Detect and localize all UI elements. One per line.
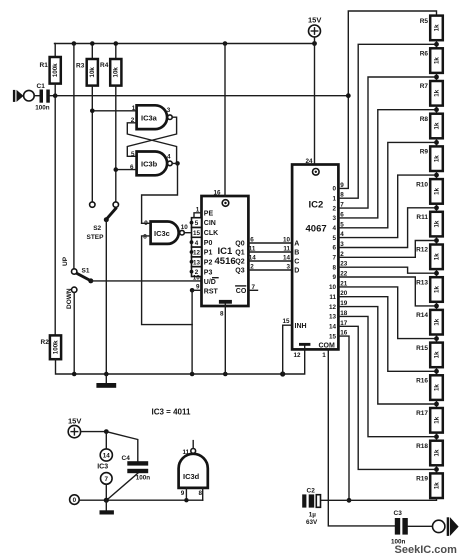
wire R16-R17 link (436, 400, 438, 408)
svg-text:1µ: 1µ (309, 512, 317, 519)
svg-text:22: 22 (340, 271, 348, 278)
wire IC2 ch6 pin3 to tap (338, 208, 436, 248)
svg-text:B: B (294, 250, 299, 257)
wire IC1 pin16 to rail (224, 44, 226, 197)
svg-text:11: 11 (283, 246, 290, 253)
wire R12-R13 link (436, 269, 438, 277)
svg-text:D: D (294, 268, 299, 275)
resistor R5 (420, 16, 443, 41)
IC1 RST pin: node and wire to ground (190, 284, 202, 374)
nand gate IC3c (143, 220, 188, 244)
ground symbol bottom left (100, 500, 114, 514)
input terminal arrow (13, 90, 24, 102)
svg-text:18: 18 (340, 310, 348, 317)
svg-text:2: 2 (250, 264, 254, 271)
svg-text:1k: 1k (433, 122, 440, 129)
wire IC3c out to IC1 CLK (185, 232, 192, 234)
wire IC3a pin2 cross-couple from IC3b out (127, 123, 176, 164)
input terminal circle (24, 90, 35, 101)
svg-text:R14: R14 (416, 312, 428, 319)
svg-text:CO: CO (236, 288, 247, 295)
switch S2 STEP (87, 202, 119, 241)
svg-text:Q2: Q2 (235, 259, 244, 266)
svg-text:P1: P1 (204, 250, 213, 257)
svg-text:1k: 1k (433, 351, 440, 358)
node IC3d pin9 (184, 498, 188, 502)
IC1 pin8 ground glyph and wire (219, 300, 232, 374)
svg-text:A: A (294, 241, 299, 248)
multiplexer IC2 4067 (292, 165, 338, 350)
nand gate IC3b (130, 151, 172, 175)
svg-text:6: 6 (250, 237, 254, 244)
wire IC3c pin9 stub (142, 222, 151, 224)
svg-text:R7: R7 (420, 83, 429, 90)
resistor R10 (416, 179, 443, 204)
svg-text:P0: P0 (204, 240, 213, 247)
svg-text:13: 13 (329, 314, 337, 321)
node tap 2 (434, 107, 439, 112)
svg-text:14: 14 (283, 255, 291, 262)
capacitor C2 electrolytic (302, 488, 320, 526)
ladder top wire input to R5 (338, 11, 436, 188)
svg-text:9: 9 (181, 490, 185, 497)
wire IC2 ch12 pin19 to tap (338, 307, 436, 404)
svg-text:P2: P2 (204, 260, 213, 267)
resistor R11 (416, 212, 442, 237)
node tap 1 (434, 75, 439, 80)
node rail/R4 (114, 41, 119, 46)
svg-text:CLK: CLK (204, 230, 218, 237)
svg-text:R10: R10 (416, 181, 428, 188)
svg-text:21: 21 (340, 280, 348, 287)
wire Q0 to A (248, 237, 292, 244)
0V terminal (70, 495, 80, 505)
svg-text:7: 7 (340, 202, 344, 209)
wire R14-R15 link (436, 335, 438, 343)
svg-text:C3: C3 (394, 510, 403, 517)
svg-text:R19: R19 (416, 476, 428, 483)
wire R13-R14 link (436, 302, 438, 310)
svg-text:1k: 1k (433, 155, 440, 162)
svg-text:IC3: IC3 (97, 464, 108, 471)
svg-text:COM: COM (319, 342, 336, 349)
wire R1 node down to R2 (54, 96, 56, 336)
svg-text:9: 9 (340, 182, 344, 189)
node R3/IC3a pin1 (90, 109, 95, 114)
wire R17-R18 link (436, 433, 438, 441)
wire C4 bottom to ground node (106, 473, 138, 500)
svg-text:1: 1 (332, 195, 336, 202)
wire Q1 to B (248, 246, 292, 253)
node rail/UP (72, 41, 77, 46)
wire ground rail (56, 349, 305, 374)
15V supply terminal top (308, 16, 321, 37)
resistor R15 (416, 343, 443, 368)
wire R18-R19 link (436, 465, 438, 473)
svg-text:3: 3 (286, 264, 290, 271)
svg-text:IC3b: IC3b (141, 160, 158, 169)
15V supply terminal bottom (68, 416, 81, 438)
IC2 INH pin to ground (283, 318, 307, 374)
svg-text:STEP: STEP (87, 234, 105, 241)
ground symbol main rail (96, 374, 116, 388)
svg-text:16: 16 (340, 330, 348, 337)
svg-text:C4: C4 (122, 455, 131, 462)
wire R9-R10 link (436, 171, 438, 179)
resistor R8 (420, 114, 443, 139)
svg-text:C1: C1 (37, 83, 46, 90)
node ladder bottom / C2 (347, 498, 352, 503)
svg-text:0: 0 (73, 497, 77, 504)
node tap 13 (434, 467, 439, 472)
svg-text:INH: INH (295, 323, 307, 330)
wire R5-R6 link (436, 40, 438, 48)
nand gate IC3a (131, 105, 172, 129)
svg-text:10: 10 (193, 275, 201, 282)
svg-text:R6: R6 (420, 51, 429, 58)
wire Q3 to D (248, 264, 292, 271)
resistor R3 (76, 44, 98, 203)
wire IC2 ch14 pin17 to tap (338, 326, 436, 469)
svg-text:9: 9 (332, 274, 336, 281)
resistor R9 (420, 146, 443, 171)
IC1 pin16 supply symbol (214, 190, 229, 207)
svg-text:14: 14 (103, 452, 111, 459)
svg-text:DOWN: DOWN (66, 288, 73, 309)
IC1 CO pin 7 stub (236, 284, 258, 295)
wire IC2 ch8 pin23 to tap (338, 267, 436, 273)
svg-text:1: 1 (322, 352, 326, 359)
wire IC2 ch10 pin21 to tap (338, 287, 436, 339)
svg-text:1k: 1k (433, 482, 440, 489)
svg-text:P3: P3 (204, 269, 213, 276)
resistor R14 (416, 310, 443, 335)
IC1 left pin names (204, 210, 219, 295)
svg-text:100n: 100n (136, 475, 151, 482)
svg-text:1k: 1k (433, 384, 440, 391)
svg-text:9: 9 (196, 284, 200, 291)
resistor R1 (40, 44, 61, 96)
resistor R12 (416, 245, 443, 270)
wire IC2 ch15 pin16 to ladder bottom (338, 336, 349, 500)
wire IC3c pin8 to RST line (142, 236, 193, 325)
svg-text:15V: 15V (308, 16, 321, 25)
svg-text:Q3: Q3 (235, 268, 244, 275)
svg-text:1: 1 (196, 207, 200, 214)
svg-text:R15: R15 (416, 345, 428, 352)
svg-text:12: 12 (329, 304, 337, 311)
svg-text:15: 15 (193, 230, 201, 237)
svg-text:10k: 10k (113, 67, 120, 78)
resistor R4 (100, 44, 121, 203)
wire IC3b pin6 from R4 line (116, 169, 137, 171)
svg-text:R5: R5 (420, 18, 429, 25)
IC2 COM pin 1 (319, 342, 336, 359)
node gnd/INH (280, 371, 285, 376)
wire C3 to output (408, 525, 433, 527)
wire Q2 to C (248, 255, 292, 262)
capacitor C4 (122, 455, 151, 482)
svg-text:1k: 1k (433, 24, 440, 31)
svg-text:1k: 1k (433, 187, 440, 194)
IC1 Q output labels (235, 241, 244, 275)
svg-text:R3: R3 (76, 63, 85, 70)
wire R11-R12 link (436, 236, 438, 244)
svg-text:R9: R9 (420, 149, 429, 156)
node rail/15V (312, 41, 317, 46)
svg-text:11: 11 (183, 449, 190, 456)
svg-text:7: 7 (105, 476, 109, 483)
svg-text:4067: 4067 (306, 224, 327, 235)
svg-text:11: 11 (249, 246, 256, 253)
svg-text:RST: RST (204, 289, 219, 296)
wire R10-R11 link (436, 204, 438, 212)
svg-text:8: 8 (199, 490, 203, 497)
node P2 bus (190, 260, 194, 264)
svg-text:1k: 1k (433, 57, 440, 64)
svg-text:1k: 1k (433, 449, 440, 456)
IC1 pin1 PE stub (194, 207, 202, 218)
wire S1 pole to IC1 U/D pin (91, 280, 202, 282)
wire IC3b out to IC3c pin9 (142, 163, 178, 223)
capacitor C3 (391, 510, 408, 546)
svg-text:5: 5 (131, 151, 135, 158)
node R1/R2/input junction (53, 93, 58, 98)
svg-text:16: 16 (214, 190, 222, 197)
capacitor C1 (35, 83, 50, 112)
resistor R13 (416, 277, 443, 302)
node P1 bus (190, 250, 194, 254)
svg-text:IC3d: IC3d (183, 472, 200, 481)
svg-text:Q0: Q0 (235, 241, 244, 248)
resistor R2 (41, 335, 62, 359)
svg-text:R18: R18 (416, 443, 428, 450)
svg-text:C: C (294, 259, 299, 266)
svg-text:3: 3 (332, 215, 336, 222)
svg-text:CIN: CIN (204, 220, 216, 227)
svg-text:S1: S1 (82, 268, 90, 275)
svg-text:10: 10 (181, 224, 189, 231)
svg-text:3: 3 (167, 107, 171, 114)
svg-text:IC3c: IC3c (154, 229, 170, 238)
node tap 5 (434, 205, 439, 210)
svg-text:4: 4 (340, 231, 344, 238)
IC3 power pins symbol (97, 432, 112, 501)
svg-text:2: 2 (340, 251, 344, 258)
resistor R19 (416, 473, 443, 498)
node P3 bus (190, 270, 194, 274)
svg-text:15: 15 (329, 333, 337, 340)
svg-text:17: 17 (340, 320, 348, 327)
node tap 9 (434, 336, 439, 341)
svg-text:8: 8 (143, 233, 147, 240)
wire R6-R7 link (436, 73, 438, 81)
resistor R18 (416, 441, 443, 466)
wire IC2 ch7 pin2 to tap (338, 241, 436, 258)
svg-text:Q1: Q1 (235, 250, 244, 257)
svg-text:R1: R1 (40, 62, 49, 69)
svg-text:1k: 1k (433, 253, 440, 260)
svg-text:C2: C2 (307, 488, 316, 495)
svg-text:IC2: IC2 (309, 200, 324, 211)
svg-text:20: 20 (340, 290, 348, 297)
svg-text:R8: R8 (420, 116, 429, 123)
wire input to C1 (34, 95, 39, 97)
node rail/R3 (90, 41, 95, 46)
svg-text:24: 24 (306, 158, 314, 165)
node tap 6 (434, 238, 439, 243)
wire IC2 ch9 pin22 to tap (338, 277, 436, 306)
svg-text:11: 11 (329, 294, 336, 301)
node IC3b output (175, 161, 180, 166)
svg-text:4: 4 (167, 153, 171, 160)
wire IC2 ch5 pin4 to tap (338, 175, 436, 238)
svg-text:5: 5 (332, 235, 336, 242)
counter IC1 4516 (202, 196, 249, 306)
svg-text:10k: 10k (89, 67, 96, 78)
svg-text:1k: 1k (433, 220, 440, 227)
wire IC3a pin1 from R3 line (92, 110, 136, 112)
svg-text:SeekIC.com: SeekIC.com (395, 544, 458, 556)
resistor R16 (416, 375, 443, 400)
node P0 bus (190, 240, 194, 244)
svg-text:23: 23 (340, 261, 348, 268)
svg-text:R2: R2 (41, 339, 50, 346)
wire IC2 ch3 pin6 to tap (338, 110, 436, 218)
node gnd/S2 (104, 372, 109, 377)
svg-text:19: 19 (340, 300, 348, 307)
wire IC2 ch1 pin8 to tap (338, 44, 436, 198)
svg-text:5: 5 (195, 220, 199, 227)
resistor R17 (416, 408, 443, 433)
output terminal circle (433, 520, 445, 532)
node gnd/DOWN (72, 372, 77, 377)
svg-text:100k: 100k (52, 340, 59, 354)
node input line / ladder (346, 93, 351, 98)
svg-text:IC3 = 4011: IC3 = 4011 (152, 408, 191, 417)
svg-text:1k: 1k (433, 286, 440, 293)
node tap 12 (434, 434, 439, 439)
svg-text:10: 10 (329, 284, 337, 291)
wire DOWN contact to ground rail (73, 293, 75, 375)
svg-text:63V: 63V (306, 519, 318, 526)
svg-text:1k: 1k (433, 416, 440, 423)
IC2 pin12 ground glyph (294, 343, 311, 359)
svg-text:6: 6 (332, 245, 336, 252)
svg-text:15V: 15V (68, 416, 81, 425)
nand gate IC3d (179, 441, 208, 497)
node tap 11 (434, 402, 439, 407)
IC2 pin24 supply symbol (306, 158, 320, 175)
wire UP contact to rail (73, 44, 75, 269)
wire IC3d pin8 stub (202, 488, 204, 500)
svg-text:100n: 100n (35, 105, 50, 112)
node gnd/RST (190, 372, 195, 377)
wire COM down and right to C3 (328, 349, 394, 526)
wire IC3d pin9 stub (185, 488, 187, 500)
wire IC2 ch11 pin20 to tap (338, 297, 436, 372)
node tap 8 (434, 304, 439, 309)
node tap 10 (434, 369, 439, 374)
svg-text:1k: 1k (433, 89, 440, 96)
svg-text:UP: UP (62, 256, 69, 266)
svg-text:U/D: U/D (204, 279, 216, 286)
resistor R7 (420, 81, 443, 106)
node tap 4 (434, 173, 439, 178)
wire IC2 ch13 pin18 to tap (338, 316, 436, 436)
svg-text:0: 0 (332, 186, 336, 193)
svg-text:8: 8 (220, 310, 224, 317)
svg-text:3: 3 (340, 241, 344, 248)
wire 0V to IC3d inputs (79, 499, 203, 501)
switch S1 UP/DOWN (62, 256, 93, 309)
wire R15-R16 link (436, 367, 438, 375)
node tap 0 (434, 42, 439, 47)
svg-text:2: 2 (332, 205, 336, 212)
svg-text:R11: R11 (416, 214, 428, 221)
node tap 3 (434, 140, 439, 145)
svg-text:4: 4 (195, 240, 199, 247)
wire R7-R8 link (436, 106, 438, 114)
node 0V/ground (104, 498, 109, 503)
svg-text:7: 7 (332, 255, 336, 262)
svg-text:R13: R13 (416, 279, 428, 286)
svg-text:8: 8 (332, 264, 336, 271)
svg-text:14: 14 (249, 255, 257, 262)
node gnd/IC1 pin8 (223, 372, 228, 377)
svg-text:1k: 1k (433, 318, 440, 325)
svg-text:R16: R16 (416, 378, 428, 385)
resistor R6 (420, 48, 443, 73)
wire +15V top rail (55, 43, 315, 45)
wire 15V down to IC2 pin24 (314, 37, 316, 165)
svg-text:5: 5 (340, 221, 344, 228)
output terminal arrow (447, 517, 459, 536)
wire S2 pole down to ground rail (105, 220, 107, 374)
svg-text:14: 14 (329, 324, 337, 331)
wire node to C4 top (106, 432, 138, 462)
wire IC2 ch2 pin7 to tap (338, 77, 436, 208)
wire R8-R9 link (436, 138, 438, 146)
node tap 7 (434, 271, 439, 276)
svg-text:R17: R17 (416, 410, 428, 417)
wire IC2 ch4 pin5 to tap (338, 142, 436, 227)
svg-text:IC3a: IC3a (141, 113, 158, 122)
svg-text:4: 4 (332, 225, 336, 232)
svg-text:R4: R4 (100, 62, 109, 69)
svg-text:12: 12 (294, 352, 302, 359)
svg-text:S2: S2 (93, 225, 101, 232)
node rail/IC1 pin16 (223, 41, 228, 46)
svg-text:4516: 4516 (215, 256, 236, 267)
svg-text:12: 12 (193, 250, 201, 257)
svg-text:R12: R12 (416, 247, 428, 254)
svg-text:PE: PE (204, 210, 214, 217)
IC2 select input letters (294, 241, 299, 275)
node R4/IC3b pin6 (114, 167, 119, 172)
svg-text:10: 10 (283, 237, 291, 244)
svg-text:13: 13 (193, 259, 201, 266)
node IC3 supply (104, 429, 109, 434)
node CIN bus (190, 221, 194, 225)
wire IC3a out cross-couple to IC3b pin5 (127, 117, 176, 156)
wire R19 bottom to C2 (321, 498, 437, 500)
svg-text:8: 8 (340, 192, 344, 199)
wire 15V to IC3 supply node (81, 431, 107, 433)
svg-text:100k: 100k (52, 63, 59, 77)
IC1 left pin boxes column (192, 218, 202, 277)
svg-text:15: 15 (283, 318, 291, 325)
